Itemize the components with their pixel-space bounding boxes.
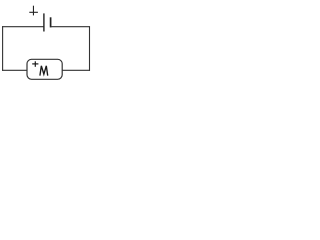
battery B1 negative plate (short) <box>50 17 52 27</box>
motor label M <box>40 66 48 76</box>
motor M1 body <box>27 59 62 79</box>
wire top-right segment <box>51 26 90 28</box>
wire left vertical <box>2 26 4 71</box>
wire right vertical <box>89 26 91 71</box>
wire bottom-left segment <box>2 69 27 71</box>
battery polarity label + <box>29 6 38 16</box>
wire bottom-right segment <box>62 69 90 71</box>
wire top-left segment <box>2 26 44 28</box>
motor polarity label + <box>32 61 38 67</box>
battery B1 positive plate (long) <box>43 13 45 31</box>
